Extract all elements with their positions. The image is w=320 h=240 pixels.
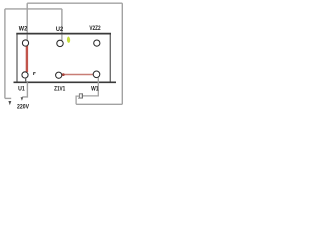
terminal W2 bbox=[22, 40, 28, 46]
svg-text:U1: U1 bbox=[18, 86, 25, 93]
cursor mark near U1 bbox=[33, 72, 35, 75]
terminal V1 bbox=[56, 72, 62, 78]
wire L1 vertical left bbox=[4, 9, 6, 99]
capacitor left lead + hook down bbox=[76, 96, 79, 104]
bridge V1-W1 (red link) bbox=[62, 74, 93, 76]
terminal U1 bbox=[22, 72, 28, 78]
svg-text:U2: U2 bbox=[56, 26, 63, 33]
terminal U2 bbox=[57, 40, 63, 46]
red junction dot near V1 bbox=[62, 73, 65, 76]
wire L2 right vertical bbox=[121, 3, 123, 104]
wire L2 top horizontal bbox=[27, 2, 122, 4]
wire U2 feed vertical bbox=[61, 9, 63, 40]
bridge W2-U1 (red link) bbox=[26, 46, 28, 72]
svg-text:W1: W1 bbox=[91, 86, 99, 93]
wire W2 feed vertical bbox=[26, 3, 28, 40]
arrow supply 2 bbox=[21, 97, 24, 101]
terminal V2 bbox=[94, 40, 100, 46]
wire bottom horizontal to capacitor bbox=[76, 103, 122, 105]
svg-text:Z1V1: Z1V1 bbox=[54, 86, 65, 93]
terminal box bbox=[17, 34, 110, 82]
capacitor C bbox=[79, 94, 82, 98]
arrow supply 1 bbox=[8, 101, 11, 105]
wire W2 feed stub inside box bbox=[26, 34, 28, 40]
wire W1 down bbox=[83, 77, 99, 96]
svg-text:V2Z2: V2Z2 bbox=[89, 25, 100, 32]
wire L1 top horizontal to U2 drop bbox=[5, 8, 62, 10]
wire U2 feed stub inside box bbox=[61, 34, 63, 40]
yellow highlight blob bbox=[67, 36, 70, 42]
svg-text:W2: W2 bbox=[19, 26, 28, 33]
wire U1 stub down bbox=[25, 78, 27, 81]
wire L1 bottom stub to arrow bbox=[5, 97, 11, 99]
wire supply 2 below box bbox=[22, 82, 27, 97]
background bbox=[0, 0, 130, 112]
svg-text:220V: 220V bbox=[17, 104, 29, 111]
terminal W1 bbox=[93, 71, 100, 78]
